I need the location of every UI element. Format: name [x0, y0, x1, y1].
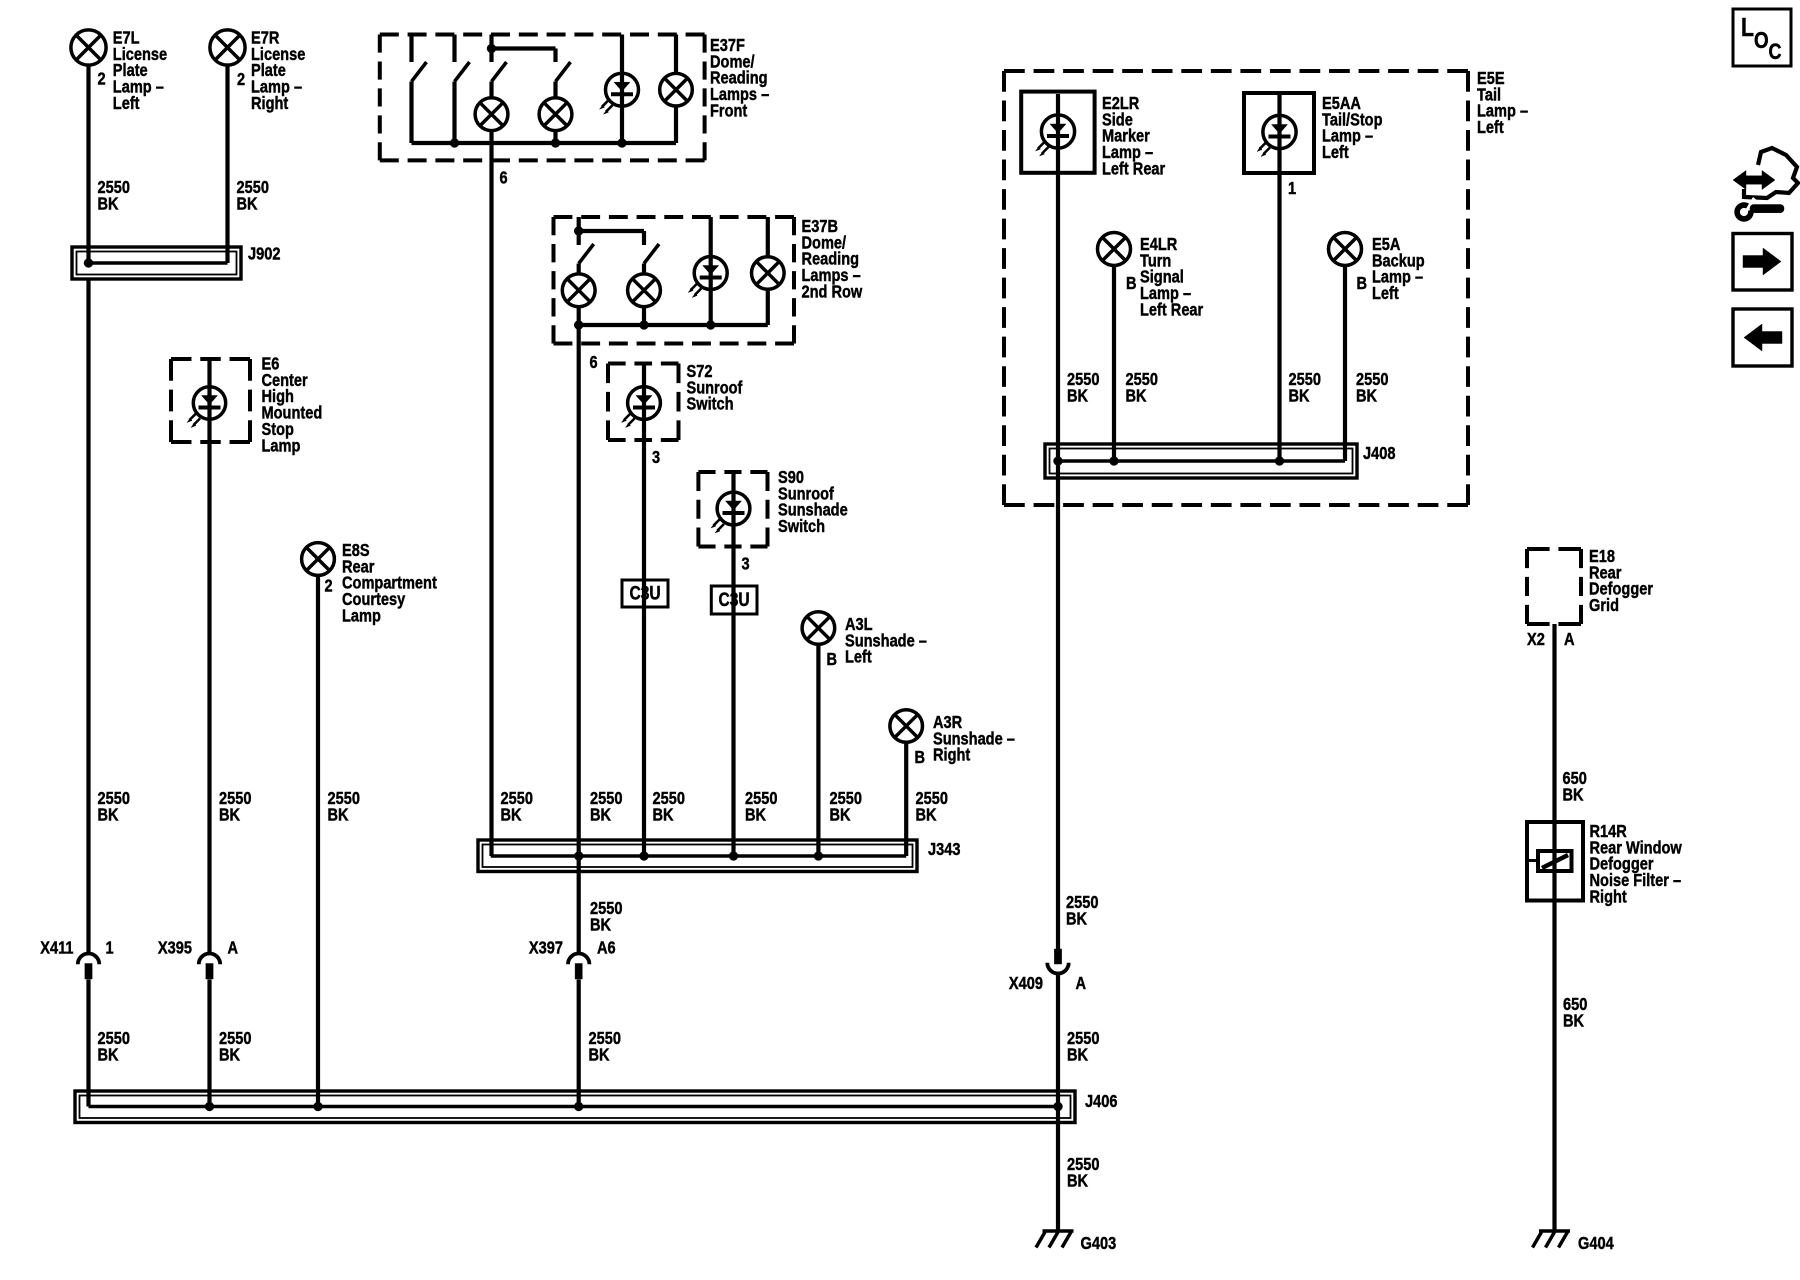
svg-text:X409: X409 — [1009, 974, 1043, 994]
component box S72 Sunroof Switch — [608, 364, 679, 441]
svg-text:X395: X395 — [158, 938, 192, 958]
ground G404 — [1533, 1231, 1571, 1248]
junction E4LR at J408 — [1110, 457, 1119, 466]
svg-text:6: 6 — [590, 353, 598, 373]
wire switch1 to lamp E37B — [577, 264, 581, 276]
wire E37F pin6 to J343 — [489, 131, 493, 857]
svg-text:C3U: C3U — [630, 582, 661, 604]
wire lamp column E37B bottom — [766, 289, 770, 325]
wire X409 to G403 — [1056, 975, 1060, 1231]
junction E2LR/output at J408 — [1054, 457, 1063, 466]
wire X395 to J406 — [207, 980, 211, 1107]
ground bus inside E37B — [579, 323, 768, 327]
wire switch1 to bus — [409, 82, 413, 144]
junction switch1 feed E37B — [574, 227, 583, 236]
lamp 1 in E37B — [562, 274, 595, 307]
ground G403 — [1036, 1231, 1074, 1248]
component box E18 Rear Defogger Grid — [1527, 549, 1581, 624]
component R14R Rear Window Defogger Noise Filter - Right — [1527, 822, 1583, 901]
junction A3L wire at J343 — [814, 852, 823, 861]
wire A3R to J343 — [904, 743, 908, 857]
wire S72 to C3U to J343 — [642, 364, 646, 857]
junction E8S wire at J406 — [314, 1102, 323, 1111]
switch 2 in E37F — [455, 35, 470, 82]
lamp under switch 3 (E37F) — [475, 98, 508, 131]
LOC icon box — [1733, 9, 1791, 66]
svg-text:L: L — [1741, 13, 1754, 43]
LED in E37F — [600, 73, 639, 114]
harness/tools icon — [1733, 148, 1798, 219]
wire switch3 to lamp — [489, 82, 493, 99]
component box E5AA Tail/Stop Lamp - Left — [1244, 93, 1314, 173]
switch 1 blade E37B — [579, 244, 594, 264]
inline connector X411 — [78, 953, 99, 979]
svg-text:X411: X411 — [40, 938, 73, 958]
lamp A3R Sunshade - Right — [890, 710, 923, 743]
junction lamp4/bus — [551, 139, 560, 148]
svg-text:O: O — [1754, 28, 1769, 53]
switch 4 in E37F — [556, 49, 571, 82]
svg-text:A: A — [1076, 974, 1087, 994]
junction C3U1 wire at J343 — [640, 852, 649, 861]
svg-text:G403: G403 — [1081, 1234, 1117, 1254]
inline connector X409 — [1047, 949, 1068, 974]
svg-text:C: C — [1769, 40, 1782, 64]
wire switch4 to lamp — [553, 82, 557, 99]
connector C3U (S72 branch) — [622, 580, 668, 607]
wire lamp column E37B top — [766, 217, 770, 258]
junction X397 wire at J406 — [574, 1102, 583, 1111]
svg-text:2: 2 — [237, 70, 245, 90]
junction lamp2/bus E37B — [640, 321, 649, 330]
LED E2LR — [1036, 115, 1075, 156]
junction bus/output E37B — [574, 321, 583, 330]
svg-text:J408: J408 — [1363, 444, 1395, 464]
LED E6 Center High Mounted Stop Lamp — [187, 387, 226, 428]
junction E37B wire at J343 — [574, 852, 583, 861]
lamp E7L License Plate Lamp - Left — [71, 30, 106, 65]
lamp E4LR Turn Signal Lamp - Left Rear — [1098, 233, 1131, 266]
svg-text:C3U: C3U — [719, 588, 750, 610]
svg-text:B: B — [915, 748, 926, 768]
svg-text:650BK: 650BK — [1563, 995, 1587, 1031]
junction switch2/bus — [450, 139, 459, 148]
component box S90 Sunroof Sunshade Switch — [698, 472, 767, 547]
lamp 2 in E37B — [628, 274, 661, 307]
junction LED/bus E37F — [618, 139, 627, 148]
junction C3U2 wire at J343 — [729, 852, 738, 861]
svg-text:X397: X397 — [529, 938, 563, 958]
wire E8S to J406 — [316, 576, 320, 1107]
lamp A3L Sunshade - Left — [802, 612, 835, 645]
component box E6 — [171, 359, 250, 442]
svg-text:3: 3 — [742, 554, 750, 574]
svg-text:1: 1 — [106, 938, 114, 958]
component box E5E Tail Lamp - Left — [1004, 71, 1468, 505]
wire lamp4 to bus — [553, 131, 557, 144]
component box E37F Dome/Reading Lamps - Front — [380, 35, 705, 161]
svg-text:B: B — [1126, 274, 1137, 294]
splice pack J343 — [478, 840, 917, 872]
splice pack J406 — [75, 1091, 1075, 1123]
wire lamp2 to bus E37B — [642, 307, 646, 326]
wire switch2 to bus — [452, 82, 456, 144]
svg-text:650BK: 650BK — [1563, 769, 1587, 805]
wire E4LR to J408 — [1112, 266, 1116, 462]
switch 1 in E37F — [412, 35, 427, 82]
switch 2 blade E37B — [644, 244, 659, 264]
junction G403 wire at J406 — [1054, 1102, 1063, 1111]
svg-text:J343: J343 — [928, 840, 960, 860]
splice pack J902 — [72, 247, 241, 279]
forward arrow icon — [1733, 234, 1792, 291]
junction switch3 feed — [487, 44, 496, 53]
component box E37B Dome/Reading Lamps - 2nd Row — [554, 217, 795, 344]
wire X397 to J406 — [577, 980, 581, 1107]
wire LED column E37B — [709, 217, 713, 325]
lamp E5A Backup Lamp - Left — [1329, 233, 1362, 266]
LED E5AA — [1257, 115, 1296, 156]
LED in S72 — [622, 387, 661, 428]
junction E6 wire at J406 — [205, 1102, 214, 1111]
wire lamp column E37F top — [674, 35, 678, 74]
splice pack J408 — [1045, 444, 1357, 478]
svg-text:J406: J406 — [1085, 1092, 1117, 1112]
dome lamp right (E37B) — [752, 257, 785, 290]
wire E37B pin6 to X397 — [577, 307, 581, 956]
lamp under switch 4 (E37F) — [539, 98, 572, 131]
svg-text:3: 3 — [652, 448, 660, 468]
branch wire to switch 4 — [492, 46, 556, 50]
svg-text:A: A — [1564, 630, 1575, 650]
wire E6 to X395 — [207, 359, 211, 955]
wire A3L to J343 — [816, 645, 820, 857]
wire E18 to R14R to G404 — [1552, 624, 1556, 1231]
connector C3U (S90 branch) — [711, 586, 757, 614]
junction E5AA at J408 — [1275, 457, 1284, 466]
wire E2LR to J408 — [1056, 94, 1060, 461]
wire J902 to X411 — [86, 279, 90, 955]
ground bus inside E37F — [412, 141, 677, 145]
svg-text:2: 2 — [325, 576, 333, 596]
svg-text:G404: G404 — [1578, 1234, 1614, 1254]
component box E2LR Side Marker Lamp - Left Rear — [1021, 92, 1094, 173]
wire E7L to J902 — [86, 65, 90, 263]
LED in S90 — [711, 492, 750, 533]
junction LED/bus E37B — [706, 321, 715, 330]
wire E5A to J408 — [1343, 266, 1347, 462]
wire X411 to J406 — [86, 980, 90, 1107]
lamp E7R License Plate Lamp - Right — [210, 30, 245, 65]
svg-text:J902: J902 — [248, 244, 280, 264]
svg-text:2: 2 — [98, 69, 106, 89]
stub switch2 E37B — [642, 231, 646, 245]
back arrow icon — [1733, 309, 1792, 366]
wire LED column E37F — [620, 35, 624, 144]
lamp E8S Rear Compartment Courtesy Lamp — [302, 543, 335, 576]
LED in E37B — [688, 257, 727, 298]
wire switch2 to lamp E37B — [642, 264, 646, 276]
junction at J902 — [84, 259, 93, 268]
dome lamp right (E37F) — [660, 73, 693, 106]
wire E7R to J902 — [225, 65, 229, 263]
inline connector X397 — [568, 954, 589, 979]
stub switch1 E37B — [577, 217, 581, 245]
svg-text:A: A — [228, 938, 239, 958]
noise filter element inside R14R — [1529, 851, 1572, 871]
branch wire to switch2 E37B — [579, 229, 644, 233]
svg-text:X2: X2 — [1527, 630, 1545, 650]
inline connector X395 — [199, 954, 220, 980]
svg-text:1: 1 — [1288, 179, 1296, 199]
svg-text:B: B — [827, 650, 838, 670]
wire lamp column E37F bottom — [674, 106, 678, 143]
switch 3 in E37F — [492, 35, 507, 82]
svg-text:B: B — [1357, 274, 1368, 294]
svg-text:A6: A6 — [597, 938, 616, 958]
wire S90 to C3U to J343 — [731, 472, 735, 856]
wire E5AA to J408 — [1277, 95, 1281, 461]
svg-text:6: 6 — [500, 168, 508, 188]
wire J408 to X409 — [1056, 461, 1060, 950]
